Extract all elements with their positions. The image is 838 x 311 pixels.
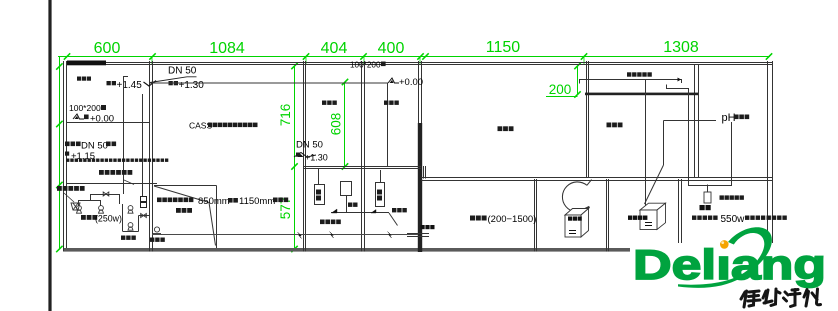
top dimension line <box>58 56 770 58</box>
svg-text:608: 608 <box>329 113 344 136</box>
label mixer <box>628 216 647 220</box>
svg-text:(200−1500): (200−1500) <box>488 214 537 225</box>
channel top line with arrow <box>580 80 682 84</box>
svg-text:600: 600 <box>94 40 121 57</box>
dosing pump region4 <box>376 183 385 207</box>
note service port <box>176 208 192 213</box>
svg-text:100*200: 100*200 <box>350 61 381 70</box>
svg-text:1150: 1150 <box>486 39 521 56</box>
right outer wall <box>767 61 769 252</box>
svg-text:100*200: 100*200 <box>69 103 101 113</box>
svg-text:1150mm: 1150mm <box>239 196 275 207</box>
logo chinese calligraphy (drawn strokes) <box>741 289 821 307</box>
leader diagonal steep <box>209 203 216 246</box>
wall 1150/1308 <box>586 61 588 177</box>
svg-text:550w: 550w <box>721 214 746 225</box>
dosing pump 1 <box>315 185 325 205</box>
weir wall 200 thick <box>585 93 698 96</box>
label float switch <box>57 186 85 191</box>
stem dosing pump 1 <box>318 168 320 185</box>
level flag 1.30 outlet <box>298 154 304 157</box>
svg-text:+1.45: +1.45 <box>117 80 143 91</box>
note to somewhere <box>320 220 341 225</box>
label aeration region4 <box>384 101 399 105</box>
dim 716 vertical <box>294 66 296 167</box>
note low level switch <box>157 198 193 203</box>
svg-text:400: 400 <box>378 40 405 57</box>
note row left part <box>692 216 718 220</box>
DN50 label leader <box>150 77 197 83</box>
float switch symbol <box>71 203 80 210</box>
svg-text:850mm: 850mm <box>198 196 230 207</box>
label filter <box>470 216 487 221</box>
dosing down pipe <box>667 85 732 186</box>
suction piping room1 <box>91 194 120 196</box>
check arrow 1 <box>371 210 376 214</box>
drain arrow CASS corner <box>298 232 302 239</box>
outlet pipe bottom <box>407 236 429 238</box>
level flag 0.00 room1 <box>73 114 84 119</box>
bottom wall <box>64 248 774 252</box>
tiny note row room1 <box>66 159 168 162</box>
blower fan circle <box>562 180 591 212</box>
pump at CASS wall base <box>153 227 161 234</box>
wall bottom room C <box>678 179 680 248</box>
label lift pump <box>121 236 136 240</box>
floor line room1 <box>66 122 150 124</box>
dim 200 vertical <box>577 66 579 95</box>
discharge diagonal <box>389 213 398 226</box>
svg-text:DN 50: DN 50 <box>296 140 323 151</box>
label aeration region3 <box>322 101 337 105</box>
wall 600/1084 <box>149 61 151 252</box>
svg-text:+1.30: +1.30 <box>179 80 205 91</box>
logo white background <box>630 243 826 311</box>
dimension extension stubs <box>151 56 153 64</box>
svg-text:404: 404 <box>321 40 348 57</box>
valve on suction line <box>103 192 109 196</box>
label on blower <box>568 217 582 221</box>
label under cylinder <box>700 205 711 210</box>
note to biochemical <box>392 208 407 212</box>
submersible pump 2 <box>99 206 104 214</box>
svg-text:pH: pH <box>722 112 736 124</box>
label right of device box <box>348 203 358 207</box>
device box region3 <box>341 182 352 196</box>
logo orange ball <box>721 241 724 244</box>
pipe riser <box>119 194 121 204</box>
pipe drop 2 room1 <box>142 94 144 196</box>
CASS inner vertical <box>216 186 218 249</box>
blob after 100*200 <box>101 105 106 110</box>
label aeration pipe above <box>720 195 744 199</box>
level label prefix +1.45 <box>107 81 117 85</box>
wall 404/400 <box>361 61 363 252</box>
label outlet dark <box>421 225 435 229</box>
bottom channel line <box>152 234 418 236</box>
left elevation dimension line <box>59 56 61 249</box>
equipment floor line room1 <box>66 183 157 185</box>
logo swoosh <box>678 227 772 288</box>
valve near wall <box>141 214 147 218</box>
leader diagonal room1 <box>124 180 134 185</box>
level flag 0.00 region4 <box>388 78 399 83</box>
svg-text:200: 200 <box>549 82 572 97</box>
svg-text:DN 50: DN 50 <box>81 141 108 152</box>
floor level joint at wall 400/1150 <box>423 166 425 179</box>
dim 608 vertical <box>344 82 346 167</box>
svg-text:+0.00: +0.00 <box>399 77 423 88</box>
svg-text:DN 50: DN 50 <box>168 66 197 77</box>
svg-text:Delıang: Delıang <box>633 241 826 288</box>
floor wall regions 3-4 <box>303 166 421 168</box>
label lift to reaction tank <box>627 72 652 76</box>
svg-text:1084: 1084 <box>209 40 245 57</box>
mixer 3d box <box>640 203 666 229</box>
drain label room1 <box>65 142 81 147</box>
svg-text:(250w): (250w) <box>95 214 122 224</box>
stem device region4 <box>380 170 382 182</box>
drain arrow region3 <box>330 232 334 239</box>
inlet pipe DN50 horizontal <box>150 83 388 166</box>
note self-priming pump inlet <box>99 170 132 175</box>
label reaction tank <box>498 126 514 131</box>
wall 400/1150 upper double <box>418 61 420 123</box>
label submersible pump <box>81 215 97 220</box>
left outer wall <box>63 61 65 252</box>
top wall <box>66 62 773 64</box>
transfer pump loop <box>122 204 124 232</box>
wall bottom room A <box>534 179 536 252</box>
lift pump upper <box>128 206 133 214</box>
note row right part <box>767 216 787 220</box>
label blower room <box>607 123 623 128</box>
wall bottom room B <box>606 179 608 252</box>
wall CASS right <box>303 61 305 252</box>
stem down <box>346 196 348 213</box>
pH dosing cylinder <box>707 185 709 193</box>
level sensor box high <box>141 197 147 202</box>
leader to float <box>64 193 74 202</box>
dim 577 vertical <box>294 167 296 250</box>
lift pump lower <box>128 223 133 231</box>
pH leader lines <box>664 120 717 122</box>
label at wall base <box>150 238 165 242</box>
floor wall regions 5-6 <box>421 177 772 179</box>
svg-text:716: 716 <box>278 104 293 127</box>
wall 400/1150 heavy lower <box>418 123 422 252</box>
level sensor box low <box>141 203 147 208</box>
label adjust-tank room1 <box>77 77 91 81</box>
note row mid part <box>745 216 765 220</box>
svg-text:+1.30: +1.30 <box>305 153 328 163</box>
blower unit 3d box <box>565 209 589 238</box>
discharge line <box>331 212 389 214</box>
CASS description blobs <box>208 123 258 128</box>
label pH adjust <box>734 115 749 120</box>
submersible pump 1 <box>77 206 82 214</box>
page border vertical line <box>48 0 51 311</box>
svg-text:1308: 1308 <box>663 39 699 56</box>
pipe drop room1 <box>123 76 125 194</box>
leader diagonal long <box>154 186 209 203</box>
pipe down to mixer <box>645 80 647 208</box>
leader line +1.45 <box>124 76 129 78</box>
CASS inner line <box>154 185 217 187</box>
top wall heavy segment <box>67 61 106 66</box>
outlet pipe top <box>407 233 429 235</box>
drain arrow region4 <box>388 232 392 239</box>
level check flag +1.30 <box>144 81 157 87</box>
wall pH room left <box>694 64 696 177</box>
